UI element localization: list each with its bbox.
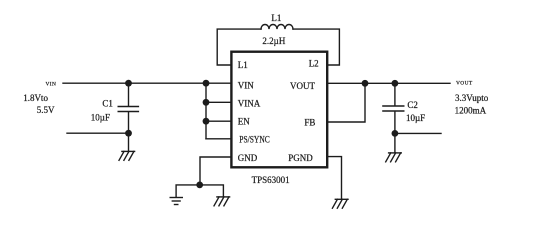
- ground (hatched) below C1: [119, 133, 135, 160]
- svg-text:3.3Vupto: 3.3Vupto: [455, 93, 489, 103]
- svg-text:C1: C1: [102, 99, 113, 109]
- svg-text:1.8Vto: 1.8Vto: [23, 93, 48, 103]
- wire inductor to L2 pin (right): [293, 29, 339, 65]
- capacitor C1: [118, 83, 138, 133]
- svg-text:PGND: PGND: [288, 153, 313, 163]
- wire GND pin to ground node: [200, 157, 231, 185]
- svg-text:VINA: VINA: [238, 99, 261, 109]
- ground (hatched) right of GND node: [214, 197, 230, 206]
- node junction dot FB tap: [362, 80, 369, 87]
- op-amp U1 TPS63001 IC body: [231, 52, 327, 168]
- svg-text:FB: FB: [304, 117, 315, 127]
- svg-text:VIN: VIN: [238, 81, 254, 91]
- svg-text:L2: L2: [309, 59, 319, 69]
- wire L1 pin to inductor loop (left): [217, 29, 261, 65]
- node junction dot VIN bus: [203, 80, 210, 87]
- wire EN pin stub: [206, 120, 231, 122]
- svg-text:C2: C2: [407, 100, 418, 110]
- ground (hatched) below PGND: [332, 199, 348, 208]
- node junction dot C1 top: [125, 80, 132, 87]
- node junction dot EN: [203, 118, 210, 125]
- node junction dot GND: [196, 182, 203, 189]
- wire PGND pin to ground: [327, 157, 342, 200]
- node junction dot C1 bottom: [125, 130, 132, 137]
- svg-text:L1: L1: [271, 13, 281, 23]
- svg-text:2.2µH: 2.2µH: [262, 36, 285, 46]
- node junction dot C2 bottom: [392, 130, 399, 137]
- svg-text:1200mA: 1200mA: [455, 105, 487, 115]
- wire node to hatched ground (right): [200, 185, 223, 197]
- svg-text:TPS63001: TPS63001: [252, 175, 290, 185]
- wire VIN input line: [63, 82, 231, 84]
- svg-text:10µF: 10µF: [406, 113, 425, 123]
- wire C2 return stub: [395, 132, 441, 134]
- ground (earth) left of node: [170, 198, 182, 205]
- svg-text:VOUT: VOUT: [290, 81, 315, 91]
- capacitor C2: [383, 83, 404, 133]
- wire VINA pin stub: [206, 101, 231, 103]
- node junction dot VINA: [203, 99, 210, 106]
- inductor L1: [261, 25, 293, 30]
- svg-text:5.5V: 5.5V: [37, 105, 55, 115]
- wire node to earth ground (left): [176, 185, 200, 197]
- wire FB feedback tap: [327, 83, 365, 122]
- svg-text:VIN: VIN: [46, 82, 57, 88]
- node junction dot C2 top: [392, 80, 399, 87]
- wire VOUT output line: [327, 82, 450, 84]
- wire input return stub: [67, 132, 129, 134]
- svg-text:10µF: 10µF: [91, 113, 110, 123]
- svg-text:EN: EN: [238, 117, 250, 127]
- svg-text:GND: GND: [238, 153, 258, 163]
- svg-text:L1: L1: [238, 60, 248, 70]
- wire VIN/VINA/EN/PS-SYNC bus vertical: [205, 83, 207, 139]
- svg-text:PS/SYNC: PS/SYNC: [239, 135, 269, 145]
- ground (hatched) below C2: [386, 133, 402, 161]
- wire PS/SYNC pin stub: [206, 138, 231, 140]
- svg-text:VOUT: VOUT: [456, 81, 473, 87]
